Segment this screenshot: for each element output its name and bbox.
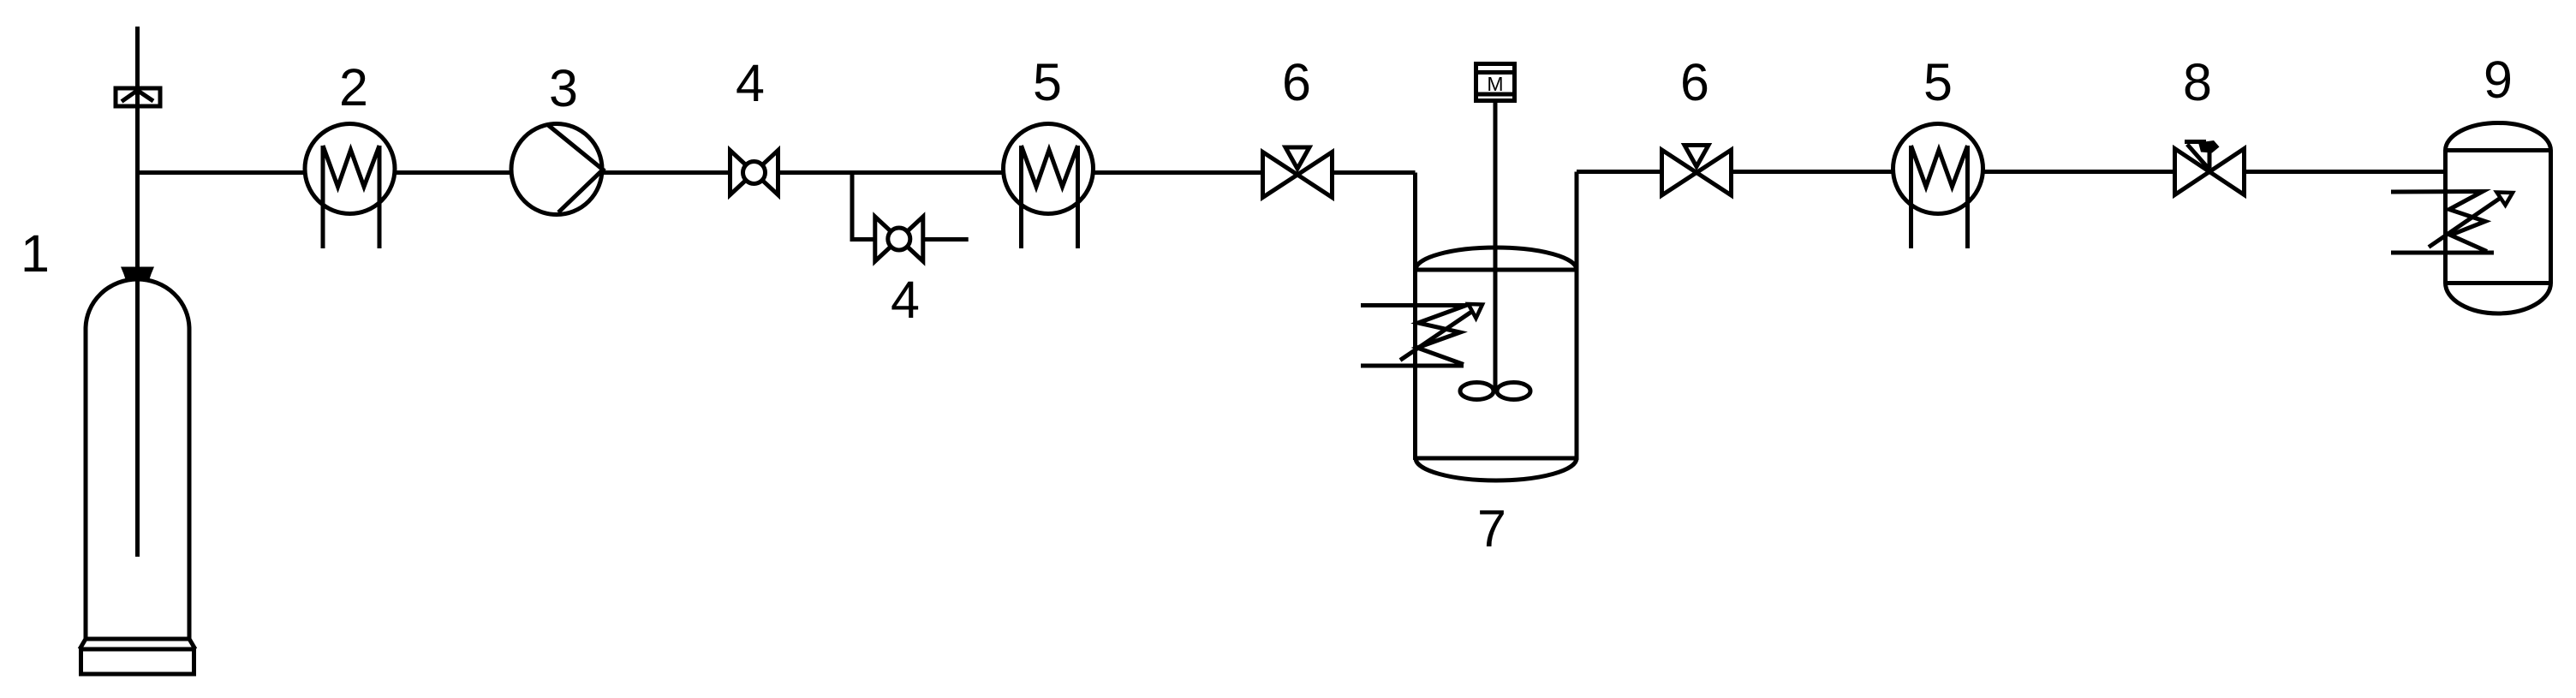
svg-text:5: 5 bbox=[1923, 53, 1953, 111]
svg-text:4: 4 bbox=[891, 271, 920, 329]
svg-text:6: 6 bbox=[1282, 53, 1311, 111]
svg-text:M: M bbox=[1487, 73, 1503, 95]
svg-text:6: 6 bbox=[1680, 53, 1709, 111]
svg-text:2: 2 bbox=[339, 58, 368, 116]
svg-text:1: 1 bbox=[21, 224, 50, 283]
svg-text:9: 9 bbox=[2484, 51, 2513, 109]
svg-text:3: 3 bbox=[549, 59, 578, 117]
svg-text:7: 7 bbox=[1477, 499, 1506, 558]
svg-text:8: 8 bbox=[2183, 53, 2212, 111]
svg-text:5: 5 bbox=[1033, 53, 1062, 111]
svg-text:4: 4 bbox=[736, 54, 765, 112]
